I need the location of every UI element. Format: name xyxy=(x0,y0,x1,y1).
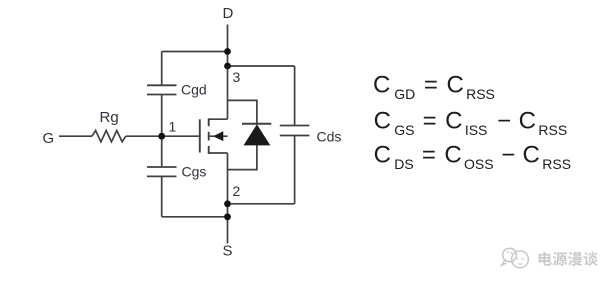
svg-text:G: G xyxy=(43,130,55,147)
channel segment top xyxy=(208,118,210,126)
source tap xyxy=(209,152,228,154)
diode cathode bar xyxy=(242,123,271,125)
svg-text:1: 1 xyxy=(169,119,177,135)
watermark logo xyxy=(502,248,529,267)
wire gate lead from G xyxy=(59,135,92,137)
wire resistor to gate xyxy=(126,135,200,137)
svg-text:D: D xyxy=(223,5,234,22)
channel segment bottom xyxy=(208,146,210,154)
wire diode branch bottom xyxy=(228,145,257,170)
wire diode branch top xyxy=(228,100,257,124)
drain tap xyxy=(209,118,228,120)
capacitor Cds xyxy=(280,126,310,136)
svg-text:Cds: Cds xyxy=(317,128,342,144)
channel segment middle xyxy=(208,132,210,141)
watermark text 电源漫谈 xyxy=(539,252,598,266)
svg-text:Rg: Rg xyxy=(100,109,119,126)
body diode D1 triangle xyxy=(244,124,271,145)
svg-text:S: S xyxy=(223,242,233,259)
junction dot source-bottom xyxy=(224,213,231,220)
gate bar xyxy=(199,119,201,152)
wire Cds branch upper vertical xyxy=(294,66,296,126)
wire Cgd-top horizontal xyxy=(162,51,228,53)
wire Cds-top horizontal xyxy=(228,65,295,67)
capacitor Cgs xyxy=(147,167,177,176)
svg-text:CGD=CRSS: CGD=CRSS xyxy=(373,72,495,103)
junction dot top-left xyxy=(224,48,231,55)
junction dot node 2 xyxy=(224,200,231,207)
wire Cds branch lower vertical xyxy=(294,136,296,204)
wire Cgs branch lower vertical xyxy=(161,176,163,216)
svg-text:2: 2 xyxy=(233,183,241,199)
wire Cgd branch lower vertical xyxy=(161,95,163,137)
wire Cgs-bottom horizontal xyxy=(162,216,228,218)
svg-text:Cgd: Cgd xyxy=(181,81,207,97)
resistor Rg xyxy=(92,131,126,142)
svg-text:3: 3 xyxy=(233,69,241,85)
wire source to Cds horizontal xyxy=(228,203,295,205)
wire source vertical xyxy=(227,153,229,244)
junction dot drain node xyxy=(224,63,231,70)
svg-text:Cgs: Cgs xyxy=(182,163,207,179)
junction dot node 1 xyxy=(158,133,165,140)
body tap with arrow xyxy=(209,135,228,137)
wire Cgs branch upper vertical xyxy=(161,136,163,167)
capacitor Cgd xyxy=(147,85,177,94)
wire Cgd branch upper vertical xyxy=(161,52,163,86)
transistor Q1 MOSFET xyxy=(200,118,209,154)
MOSFET body arrow xyxy=(213,131,223,141)
svg-text:CDS=COSS−CRSS: CDS=COSS−CRSS xyxy=(374,141,571,172)
wire D vertical xyxy=(227,25,229,120)
svg-text:CGS=CISS−CRSS: CGS=CISS−CRSS xyxy=(374,107,568,138)
